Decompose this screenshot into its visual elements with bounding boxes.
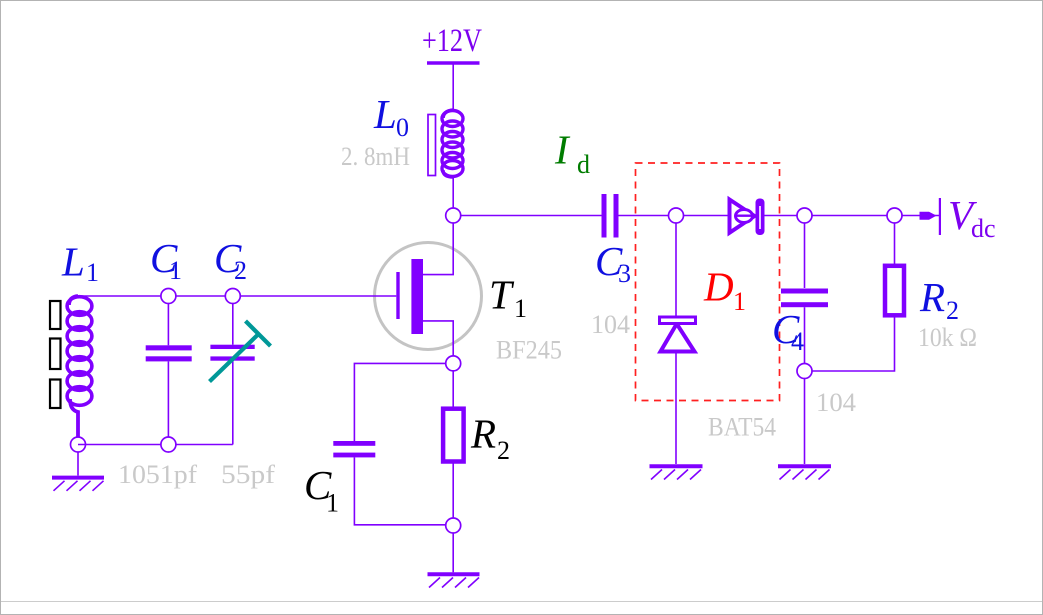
value label 104 C3 [591,310,630,339]
wire +12V bar to L0 [452,63,454,112]
label R2 output [919,274,959,325]
svg-text:L: L [61,239,85,285]
svg-text:T: T [489,272,515,318]
svg-text:I: I [554,127,571,173]
svg-text:1: 1 [169,256,182,285]
transistor T1 JFET [375,216,482,364]
svg-text:2. 8mH: 2. 8mH [341,142,410,171]
wire R2 top [894,216,896,266]
svg-text:1: 1 [326,489,339,518]
wire C4 bottom node to ground [804,379,806,465]
svg-text:4: 4 [791,327,804,356]
current label Id [554,127,590,180]
value label 10k ohm [918,323,977,352]
svg-text:D: D [703,264,734,310]
ground L1 [52,478,104,491]
label C2 [214,235,247,285]
trimmer arrow C2 [210,321,271,382]
capacitor C3 [602,194,619,238]
ground T1 source [428,574,480,587]
wire drain rail to C3 [453,215,601,217]
inductor L0 [428,110,463,177]
node drain junction [446,208,461,223]
net label Vdc [948,192,996,243]
wire series diode to C4 node [765,215,940,217]
svg-text:104: 104 [591,310,630,339]
wire C3 to D1 node [619,215,729,217]
capacitor C1 bypass [333,363,445,524]
svg-text:R: R [919,274,945,320]
value label BF245 [496,336,562,365]
label T1 [489,272,527,324]
diode D1 series element [730,199,765,236]
wire L1 bottom to ground [77,437,79,476]
svg-text:55pf: 55pf [221,460,275,489]
svg-text:0: 0 [396,113,409,142]
svg-text:d: d [577,150,590,179]
capacitor C2 variable [210,296,254,445]
svg-text:2: 2 [946,296,959,325]
svg-text:+12V: +12V [422,23,482,59]
capacitor C1 tank [146,296,192,445]
wire gate rail [78,295,396,297]
svg-text:1051pf: 1051pf [118,460,197,489]
svg-text:104: 104 [816,388,856,417]
value label 2.8mH [341,142,410,171]
wire R2 bottom to C4 bottom node [812,315,895,371]
net label +12V [422,23,482,59]
resistor R2 source [443,371,464,518]
label C4 [772,306,804,356]
node D1 input junction [669,208,684,223]
svg-text:dc: dc [971,214,996,243]
svg-text:1: 1 [86,258,99,287]
node source junction [446,356,461,371]
value label 1051pf [118,460,197,489]
svg-text:1: 1 [733,287,746,316]
wire D1 node down to shunt diode [675,216,677,318]
output terminal Vdc arrow and bar [920,198,942,235]
node C2 top junction [225,289,240,304]
value label 55pf [221,460,275,489]
wire L0 to drain node [452,177,454,216]
svg-text:BAT54: BAT54 [708,413,776,442]
svg-text:2: 2 [497,436,510,465]
svg-text:3: 3 [618,259,631,288]
node R2 top junction [887,208,902,223]
wire bottom rail [78,444,233,446]
node C1 top junction [161,289,176,304]
value label BAT54 [708,413,776,442]
ground D1 [650,466,703,479]
wire shunt diode to ground [675,354,677,465]
label R2 source [470,411,510,466]
label D1 [703,264,746,317]
label C1 tank [150,235,182,285]
svg-text:L: L [373,91,397,137]
wire bottom node to ground [452,533,454,572]
svg-text:BF245: BF245 [496,336,562,365]
svg-text:10k Ω: 10k Ω [918,323,977,352]
inductor L1 [50,296,92,437]
svg-text:2: 2 [234,256,247,285]
diode D1 shunt element [660,317,696,352]
label C1 bypass [304,462,339,518]
label L1 [61,239,99,288]
capacitor C4 [781,216,828,372]
dashed enclosure D1 [636,163,780,401]
node L1 bottom junction [71,437,86,452]
node C1 bottom junction [161,437,176,452]
label L0 [373,91,409,142]
label C3 [595,238,631,288]
ground C4 [778,466,831,479]
resistor R2 output [885,266,904,316]
svg-text:R: R [470,411,496,457]
svg-text:1: 1 [514,294,527,323]
node bottom junction [446,518,461,533]
value label 104 C4 [816,388,856,417]
node C4 top junction [797,208,812,223]
node C4 bottom junction [797,364,812,379]
power rail bar +12V [427,61,480,65]
